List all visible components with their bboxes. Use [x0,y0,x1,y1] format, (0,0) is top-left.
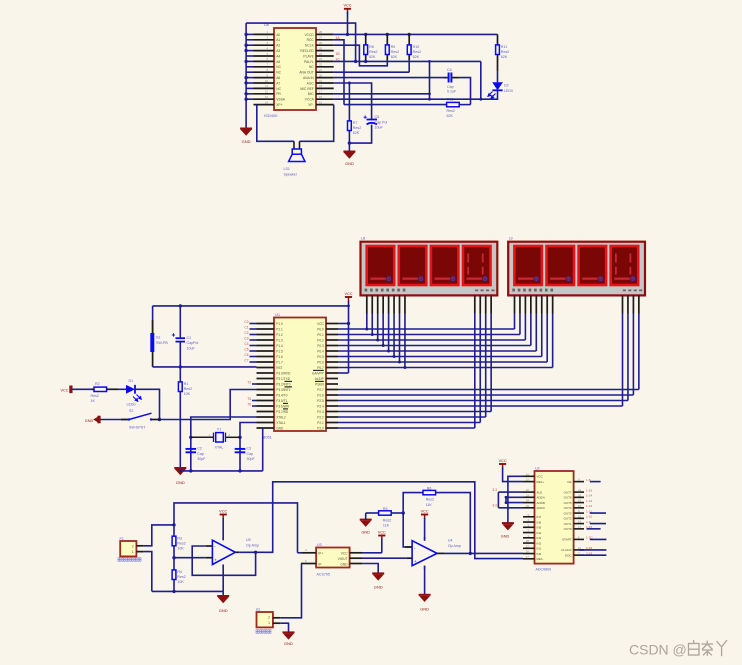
svg-text:1: 1 [268,621,270,625]
svg-text:16: 16 [526,472,530,476]
wire RCC net down [334,40,344,105]
svg-text:Res2: Res2 [177,541,185,545]
display L9 digit cell 3 [579,246,607,285]
wire R6 right to output [436,493,471,554]
svg-text:U4: U4 [448,538,453,542]
wire C5 bottom [349,125,371,144]
wire bottom rail U5 [152,590,223,592]
svg-text:A5: A5 [276,60,280,64]
svg-text:IP-: IP- [318,562,322,566]
IC U6 ISD voice chip [274,28,316,110]
svg-text:U1: U1 [275,312,281,317]
capacitor C2 [186,447,207,461]
svg-text:P3.2/INT0: P3.2/INT0 [276,382,291,386]
svg-text:IN0: IN0 [537,552,542,556]
svg-text:1-15: 1-15 [586,488,592,492]
connector P2 load [256,608,280,628]
svg-text:GND: GND [361,531,370,535]
svg-text:30pF: 30pF [247,457,256,461]
wire VCCA row [334,98,481,100]
wire ACS VIOUT to U4 plus [362,557,407,559]
svg-text:Cap Pol: Cap Pol [375,120,388,124]
wire U5 feedback loop [192,546,255,575]
svg-text:MIC REF: MIC REF [300,87,314,91]
display L9 segment pin stubs [515,295,553,313]
svg-text:P1.2: P1.2 [276,333,283,337]
svg-text:Op Amp: Op Amp [246,543,259,547]
wire EA pin [338,372,349,374]
node inverting junction [402,511,405,514]
svg-text:Cap: Cap [447,85,454,89]
svg-text:2: 2 [268,615,270,619]
MCU left pin stubs [257,324,275,429]
display L9 select pin stubs [623,295,639,313]
resistor R10 [408,34,410,60]
svg-text:PALYL: PALYL [304,60,314,64]
chip U3 ACS705 [301,543,362,577]
svg-text:22: 22 [319,63,323,67]
svg-text:3-3: 3-3 [492,488,497,492]
svg-text:CLOCK: CLOCK [561,548,571,552]
svg-text:20: 20 [319,73,323,77]
svg-text:P1.0: P1.0 [276,322,283,326]
label load interface [256,630,271,633]
ground GND bar switch [94,416,100,423]
svg-text:A1: A1 [276,38,280,42]
svg-text:P0.4: P0.4 [317,349,324,353]
svg-text:P2.1: P2.1 [317,421,324,425]
wire R5 left [366,513,379,520]
svg-text:R8: R8 [369,45,374,49]
resistor R9 [386,34,388,60]
wire ADC address pins [498,492,523,508]
svg-text:P2.6: P2.6 [317,393,324,397]
wire PALYL net W1 [334,60,481,62]
svg-text:17: 17 [578,525,582,529]
ground GND load [283,632,295,639]
svg-text:+: + [214,558,217,563]
switch S2 SW-SPST [121,409,160,430]
svg-text:Cap: Cap [197,452,204,456]
svg-text:Speaker: Speaker [284,172,298,176]
svg-text:OE: OE [567,480,571,484]
svg-text:AGC: AGC [307,81,315,85]
wire R10 bottom drop [408,60,410,72]
power VCC adc [499,464,506,469]
wire VCC pin row to ground drop [508,476,523,522]
svg-text:Res2: Res2 [91,394,99,398]
svg-text:25: 25 [526,504,530,508]
svg-text:26: 26 [319,41,323,45]
svg-text:OUT5: OUT5 [564,501,572,505]
capacitor C5 [364,115,388,129]
svg-text:1-13: 1-13 [586,499,592,503]
svg-text:3-2: 3-2 [492,504,497,508]
svg-text:P0.7: P0.7 [317,366,324,370]
node R7 C5 junction [348,141,351,144]
svg-text:ADDC: ADDC [537,506,546,510]
wire ADC START stub [590,538,607,540]
svg-text:D1: D1 [129,379,134,383]
svg-text:C6: C6 [244,353,248,357]
svg-text:C5: C5 [244,347,248,351]
svg-text:P0.3: P0.3 [317,344,324,348]
display L9 digit cell 4 [611,246,639,285]
wire R6 left and inverting input [403,493,423,547]
svg-text:18: 18 [319,84,323,88]
svg-text:A3: A3 [276,49,280,53]
node bus junctions [244,33,247,101]
svg-text:14: 14 [265,100,269,104]
ground GND adc [502,523,514,530]
crystal Y1 [191,427,240,449]
wire ISD address bus to ground [246,23,253,128]
wire R4 to rail [173,580,175,592]
svg-text:R7: R7 [353,121,358,125]
resistor R8 [365,34,367,60]
svg-text:1-10: 1-10 [586,515,592,519]
svg-text:1-12: 1-12 [586,504,592,508]
display L8 segment pin stubs [367,295,405,313]
svg-text:ANA OUT: ANA OUT [299,71,313,75]
wire ADC CLOCK stub [579,549,606,551]
wire S2 to INT1 [160,390,257,420]
node reset rail [179,304,350,307]
svg-text:NC: NC [276,71,281,75]
wire speaker loop XP [257,105,334,142]
ADC pin numbers [526,472,582,559]
svg-text:EA/VPP: EA/VPP [312,371,324,375]
svg-text:62K: 62K [447,114,454,118]
svg-text:OUT7: OUT7 [564,490,572,494]
svg-text:L9: L9 [509,237,513,241]
net labels P3 port [247,380,256,406]
power VCC ACS705 [378,536,385,541]
svg-text:S1: S1 [156,336,160,340]
svg-text:1: 1 [132,550,134,554]
capacitor C3 [235,447,256,461]
svg-text:11: 11 [265,84,268,88]
wire VCC to U5 [222,518,224,540]
ground GND R5 [360,520,372,527]
svg-text:R10: R10 [413,45,420,49]
svg-text:RECLED: RECLED [300,49,314,53]
svg-text:VCC: VCC [60,388,68,392]
display L9 digit cell 2 [547,246,575,285]
wire R2 to LED D1 [118,388,126,390]
svg-text:OUT2: OUT2 [564,517,572,521]
svg-text:18: 18 [578,504,582,508]
svg-text:Res2: Res2 [391,50,399,54]
svg-text:A4: A4 [276,54,280,58]
ground GND ACS [372,573,384,580]
adc U2 ADC0809 body [535,471,574,564]
svg-text:R11: R11 [501,45,507,49]
power VCC U5 [220,515,227,520]
wire P0 data bus to displays [338,314,553,368]
display L8 pin name strip [365,289,495,292]
display L8 select pin stubs [475,295,491,313]
wire U4 output to ADC [444,552,523,554]
svg-text:XTAL2: XTAL2 [276,415,286,419]
svg-text:1A: 1A [336,36,341,40]
svg-text:28: 28 [526,539,530,543]
svg-text:OUT3: OUT3 [564,511,572,515]
MCU right pin stubs [326,324,338,429]
wire GND to S2 [100,419,129,421]
node R3 top junction [172,523,175,526]
svg-text:P3.0/RXD: P3.0/RXD [276,371,291,375]
svg-text:NC: NC [276,87,281,91]
wire RST row [153,366,257,368]
svg-text:XP+: XP+ [276,103,282,107]
node U4 output junction [469,552,472,555]
svg-text:REF+: REF+ [537,480,545,484]
svg-text:GND: GND [284,641,293,646]
wire ACS IP- to load connector [280,564,301,618]
label measure interface [118,558,141,561]
resistor R3 [172,536,176,546]
display module L8 [361,242,498,296]
watermark CSDN [629,642,687,658]
svg-text:VCC: VCC [343,4,351,8]
svg-text:VCC: VCC [499,459,507,463]
wire VCC to U4 [424,518,426,541]
svg-text:ISD400: ISD400 [264,113,278,118]
display L8 digit cell 1 [367,246,395,285]
wire ADC OE stub [590,481,601,483]
svg-text:15: 15 [578,514,582,518]
wire P1 pin2 to R3 top [144,525,174,546]
svg-text:P2.0: P2.0 [317,426,324,430]
svg-text:P2: P2 [256,608,260,612]
wire NCLK net staircase [334,45,388,66]
node VCCA junction [479,98,482,101]
wire P2 select lines display L9 [338,314,639,407]
svg-text:17: 17 [319,90,323,94]
svg-text:27: 27 [526,544,530,548]
svg-text:19: 19 [319,79,323,83]
svg-text:C3: C3 [244,336,248,340]
ADC right net labels [586,478,593,556]
wire R5 right to inverting node [391,512,403,514]
wire R3 node to ACS IP+ [174,503,298,553]
svg-text:C4: C4 [447,68,452,72]
capacitor C1 reset [172,306,199,367]
svg-text:IN4: IN4 [537,531,542,535]
wire XTAL1 row [240,423,257,471]
svg-text:24: 24 [319,52,323,56]
svg-text:Res2: Res2 [426,498,434,502]
svg-text:MIC: MIC [308,92,315,96]
speaker LS1 [284,141,306,176]
svg-text:10K: 10K [177,580,184,584]
svg-text:15: 15 [319,100,323,104]
svg-text:C1: C1 [187,336,192,340]
ground GND U4 [419,595,431,602]
svg-text:20: 20 [578,493,582,497]
svg-text:P2.5: P2.5 [317,399,324,403]
svg-text:1C: 1C [336,57,341,61]
microcontroller U1 8051 body [274,318,326,432]
resistor R2 [91,382,119,403]
wire MCU GND pin down [262,428,264,471]
wire VCC to rail [347,12,349,34]
display module L9 [508,242,645,296]
svg-text:P1: P1 [120,537,124,541]
svg-text:P0.1: P0.1 [317,333,324,337]
wire ADC EOC stub [579,554,606,556]
resistor R6 [423,487,436,507]
ground GND U5 [222,591,224,595]
wire ANA IN net [334,77,444,79]
svg-text:62K: 62K [391,55,398,59]
svg-text:NC: NC [276,65,281,69]
svg-text:GND: GND [420,607,429,612]
svg-text:U3: U3 [317,543,322,547]
connector P1 measure voltage [120,537,144,557]
svg-text:ADDB: ADDB [537,501,545,505]
svg-text:C5: C5 [375,115,380,119]
svg-text:24: 24 [526,499,530,503]
resistor R7 [348,121,352,131]
svg-text:A6: A6 [276,76,280,80]
power VCC top [344,9,351,14]
LED D2 [488,82,513,98]
node AGC junction [348,82,351,85]
svg-text:62K: 62K [369,55,376,59]
svg-text:VCC: VCC [344,292,352,296]
wire VCC to REF [503,468,523,482]
svg-text:P1.6: P1.6 [276,355,283,359]
svg-text:VCC: VCC [537,475,544,479]
svg-text:Res2: Res2 [447,109,455,113]
svg-text:GND: GND [219,608,228,613]
svg-text:SW-PB: SW-PB [156,341,168,345]
svg-text:P1.5: P1.5 [276,349,283,353]
svg-text:U5: U5 [246,538,251,542]
svg-text:EOC: EOC [565,553,572,557]
wire top loop over ISD [246,23,356,61]
svg-text:D2: D2 [504,84,509,88]
svg-text:10K: 10K [177,546,184,550]
node divider junction [172,556,175,559]
wire ACS IP+ stub [298,552,302,554]
svg-text:Res2: Res2 [369,50,377,54]
svg-text:VCC: VCC [341,551,348,555]
wire ACS GND pin [362,564,378,573]
svg-text:28: 28 [319,30,323,34]
ground GND bus [240,129,252,136]
power VCC mcu [345,297,352,302]
wire R7 to ground [348,131,350,152]
resistor R4 [172,570,176,580]
svg-text:P3.4/T0: P3.4/T0 [276,393,287,397]
svg-text:C0: C0 [244,320,248,324]
resistor R1 [179,367,181,382]
svg-text:SW-SPST: SW-SPST [129,426,146,430]
node tie junctions [428,60,431,101]
svg-text:VIOUT: VIOUT [338,557,348,561]
svg-text:A0: A0 [276,33,280,37]
wire R12 row [344,104,471,106]
wire U4 to ground [424,566,426,595]
wire ANA OUT net [334,71,410,73]
wire R8 bottom to W1 [365,60,367,61]
svg-text:C2: C2 [244,331,248,335]
svg-text:Res2: Res2 [177,575,185,579]
svg-text:REF-: REF- [537,557,544,561]
svg-text:LED0: LED0 [504,89,513,93]
svg-text:ANA IN: ANA IN [303,76,314,80]
wire VCC pin [338,323,349,325]
svg-text:C1: C1 [244,325,248,329]
svg-text:ALE: ALE [537,490,543,494]
svg-text:A2: A2 [276,44,280,48]
wire tie PALYL to VCCA [429,61,431,99]
svg-text:IN6: IN6 [537,520,542,524]
op-amp U4 [405,537,461,569]
wire XTAL2 row [191,417,257,471]
node RST junction [179,365,182,368]
svg-text:10uF: 10uF [375,126,384,130]
svg-text:30pF: 30pF [197,457,206,461]
op-amp U5 [206,537,259,569]
resistor R11 [497,34,499,71]
svg-text:14: 14 [578,520,582,524]
node U5 output junction [254,551,257,554]
svg-text:IP+: IP+ [318,551,323,555]
svg-text:L8: L8 [361,237,365,241]
svg-text:T5: T5 [247,397,251,401]
svg-text:10uF: 10uF [187,346,196,350]
svg-text:ACS705: ACS705 [317,573,330,577]
svg-text:P2.3: P2.3 [317,410,324,414]
svg-text:Cap: Cap [247,452,254,456]
svg-text:Y1: Y1 [217,427,221,431]
svg-text:27: 27 [319,36,323,40]
ISD right pin stubs [316,30,334,104]
svg-text:P3.3/INT1: P3.3/INT1 [276,388,291,392]
svg-text:R4: R4 [177,570,182,574]
svg-text:P1.3: P1.3 [276,338,283,342]
svg-text:Res2: Res2 [413,50,421,54]
wire VCC to ACS [381,539,383,553]
svg-text:R9: R9 [391,45,396,49]
svg-text:Res2: Res2 [353,126,361,130]
svg-text:PR: PR [276,92,281,96]
svg-text:GND: GND [340,562,348,566]
svg-text:VCC: VCC [219,509,227,513]
capacitor C4 [443,68,459,93]
svg-text:P1.1: P1.1 [276,327,283,331]
svg-text:ADDA: ADDA [537,496,545,500]
wire ADC out stubs [587,513,607,529]
wire P1 pin1 down to rail [144,552,152,592]
svg-text:OUT4: OUT4 [564,506,572,510]
display L9 digit cell 1 [514,246,542,285]
svg-text:XP-: XP- [308,103,314,107]
svg-text:16: 16 [319,95,323,99]
display L8 digit cell 3 [431,246,459,285]
svg-text:1K: 1K [91,399,96,403]
svg-text:62K: 62K [413,55,420,59]
node crystal right [238,436,241,439]
svg-text:IN1: IN1 [537,547,542,551]
wire reset top rail [153,305,349,307]
svg-text:P1.4: P1.4 [276,344,283,348]
svg-text:8051: 8051 [263,435,273,440]
